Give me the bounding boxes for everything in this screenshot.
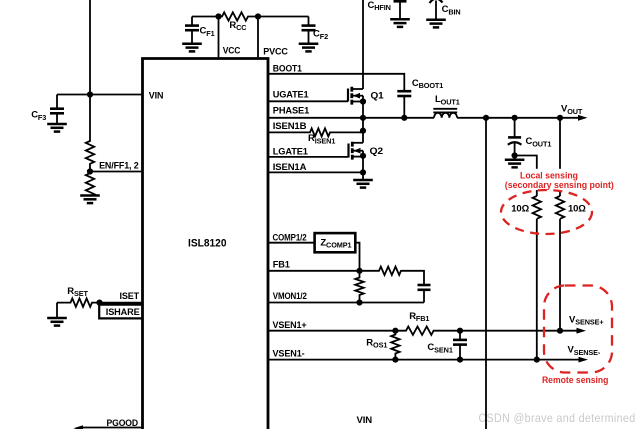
ground (CF2) [299, 44, 319, 52]
wire UGATE1 [268, 100, 348, 102]
red dashed rounded rect remote sensing [544, 286, 612, 373]
wire COMP1/2 [268, 242, 315, 244]
svg-text:EN/FF1, 2: EN/FF1, 2 [99, 160, 139, 171]
svg-text:ISEN1A: ISEN1A [273, 162, 307, 173]
node VCC junction [215, 13, 221, 19]
node VIN junction [87, 91, 93, 97]
block ZCOMP1 [315, 233, 356, 252]
label Local sensing (red) [502, 169, 618, 190]
wire VIN rail to Q1 drain [362, 0, 364, 89]
wire VMON1/2 [268, 302, 424, 304]
svg-text:VMON1/2: VMON1/2 [273, 291, 307, 302]
resistor (EN divider lower) [86, 172, 94, 197]
resistor 10ohm right [559, 118, 561, 196]
capacitor CF1 [185, 17, 215, 44]
svg-text:10Ω: 10Ω [568, 203, 586, 214]
svg-text:BOOT1: BOOT1 [273, 64, 303, 75]
resistor RSET [57, 298, 100, 306]
svg-text:ISEN1B: ISEN1B [273, 121, 307, 132]
wire LGATE1 [268, 156, 349, 158]
node FB1 junction [356, 268, 362, 274]
transistor Q2 [349, 142, 384, 180]
wire output to VOUT arrow [457, 117, 580, 119]
svg-text:PVCC: PVCC [263, 47, 288, 58]
wire ISEN1B with resistor RISEN1 [268, 128, 363, 136]
svg-text:Q2: Q2 [370, 146, 384, 157]
capacitor CF3 [31, 95, 64, 125]
wire VSEN1- with arrow [268, 359, 579, 361]
red dashed ellipse local sensing [501, 190, 592, 234]
ground (CBIN) [426, 20, 446, 28]
svg-text:COMP1/2: COMP1/2 [273, 232, 307, 243]
node COUT1 bottom junction [511, 152, 517, 158]
capacitor CSEN1 [427, 331, 467, 360]
resistor 10ohm left [533, 196, 541, 219]
resistor (EN divider upper) [86, 95, 94, 172]
node VSEN1- to 10ohm left [534, 357, 540, 363]
svg-text:ISET: ISET [120, 291, 140, 302]
resistor ROS1 [391, 331, 399, 360]
node ROS1 top [392, 328, 398, 334]
resistor FB1-VMON vertical [355, 271, 363, 303]
svg-text:CSDN @brave and determined: CSDN @brave and determined [479, 411, 636, 425]
node CSEN1 bottom [457, 357, 463, 363]
wire VCC drop [218, 17, 220, 58]
node phase junction [360, 115, 366, 121]
svg-text:10Ω: 10Ω [511, 203, 529, 214]
node output rail junction [483, 115, 489, 121]
ground (CF1) [182, 44, 202, 52]
node CSEN1 top [457, 328, 463, 334]
svg-text:LGATE1: LGATE1 [273, 147, 309, 158]
capacitor COUT1 (polarized) [508, 118, 552, 156]
wire FB1 with series resistor [268, 267, 424, 285]
svg-text:VIN: VIN [149, 91, 164, 102]
ground (Q2 source) [353, 180, 373, 188]
svg-text:VCC: VCC [223, 46, 241, 57]
ground (CHFIN) [390, 19, 410, 27]
node ISEN1A junction [360, 169, 366, 175]
node CBOOT1 bottom junction [401, 115, 407, 121]
svg-text:PHASE1: PHASE1 [273, 105, 310, 116]
node VSEN1+ to 10ohm right [557, 328, 563, 334]
wire VIN pin [57, 94, 143, 96]
wire long rail down [485, 118, 487, 429]
wire ZCOMP1 to FB1 [355, 243, 359, 271]
ground (COUT1) [505, 160, 525, 168]
svg-text:UGATE1: UGATE1 [273, 90, 310, 101]
ground (EN divider) [80, 196, 100, 204]
wire RSET to ground [56, 303, 58, 318]
svg-text:Remote sensing: Remote sensing [542, 375, 609, 385]
node ROS1 bottom [392, 357, 398, 363]
wire BOOT1 [268, 74, 404, 91]
svg-text:Local sensing: Local sensing [520, 171, 578, 181]
ground (RSET) [47, 318, 67, 326]
wire PHASE1 / phase node to inductor [268, 117, 434, 119]
inductor LOUT1 [433, 94, 459, 118]
wire VIN input rail [89, 0, 91, 95]
node VMON junction [356, 299, 362, 305]
svg-text:ISHARE: ISHARE [106, 307, 140, 318]
node Q1 source junction [360, 98, 366, 104]
capacitor CHFIN [368, 0, 407, 19]
svg-text:Q1: Q1 [371, 91, 385, 102]
node COUT1 junction [511, 115, 517, 121]
svg-text:FB1: FB1 [273, 260, 291, 271]
wire EN/FF pin [90, 171, 143, 173]
ground (CF3) [47, 124, 67, 132]
capacitor CBOOT1 [397, 78, 443, 118]
svg-text:VSEN1-: VSEN1- [273, 349, 305, 360]
wire PGOOD with arrow [80, 427, 143, 429]
wire VSEN1+ with resistor RFB1 and arrow [268, 327, 577, 335]
wire ISEN1A [268, 171, 363, 173]
wire ISET pin [100, 302, 143, 304]
wire PVCC drop [257, 17, 259, 58]
svg-text:ISL8120: ISL8120 [188, 238, 227, 250]
node Q2 source junction [360, 153, 366, 159]
svg-text:(secondary sensing point): (secondary sensing point) [505, 180, 614, 190]
transistor Q1 [348, 87, 384, 143]
pin ISHARE box [99, 305, 142, 319]
wire COUT1 to local sense resistor [515, 156, 537, 197]
node ISEN1B junction [360, 128, 366, 134]
IC U1 ISL8120 outline [143, 59, 269, 429]
svg-text:VIN: VIN [357, 415, 373, 426]
node ISET junction [96, 300, 102, 306]
svg-text:VSEN1+: VSEN1+ [273, 320, 308, 331]
node 10ohm right junction [557, 115, 563, 121]
node EN junction [87, 168, 93, 174]
wire top rail with resistor RCC [192, 12, 309, 20]
capacitor CF2 [302, 17, 329, 44]
capacitor comp (series) [418, 284, 431, 287]
node PVCC junction [255, 13, 261, 19]
capacitor CBIN [430, 0, 461, 20]
